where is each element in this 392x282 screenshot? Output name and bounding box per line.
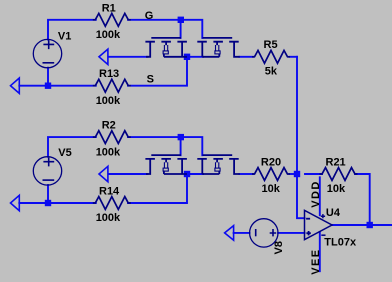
svg-text:G: G [145,10,154,22]
svg-text:5k: 5k [265,66,278,78]
svg-text:U4: U4 [326,207,341,219]
svg-text:R20: R20 [261,156,281,168]
svg-text:S: S [147,74,154,86]
svg-text:R13: R13 [99,68,119,80]
svg-text:TL07x: TL07x [324,236,357,248]
svg-text:100k: 100k [96,29,121,41]
svg-text:100k: 100k [96,212,121,224]
svg-text:R2: R2 [102,120,116,132]
svg-text:R1: R1 [102,2,116,14]
svg-text:10k: 10k [327,183,346,195]
svg-text:10k: 10k [262,183,281,195]
svg-text:VEE: VEE [310,248,322,274]
svg-text:R21: R21 [326,156,346,168]
svg-text:V5: V5 [58,147,71,159]
svg-text:R14: R14 [99,186,120,198]
svg-text:100k: 100k [96,95,121,107]
svg-text:100k: 100k [96,146,121,158]
svg-text:V8: V8 [273,241,285,254]
svg-text:R5: R5 [264,39,278,51]
svg-text:V1: V1 [58,30,71,42]
svg-text:VDD: VDD [310,180,322,207]
